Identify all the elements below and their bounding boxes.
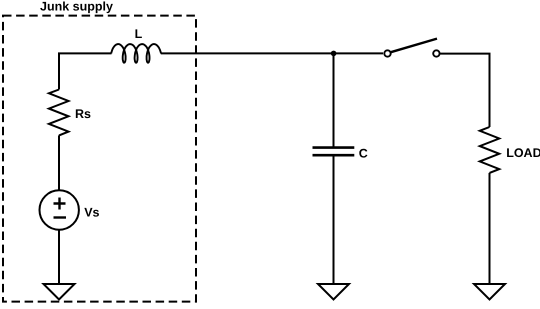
svg-text:Vs: Vs	[84, 205, 99, 219]
resistor LOAD	[480, 127, 500, 173]
junk supply enclosure	[3, 16, 196, 302]
wire: Rs to Vs	[58, 135, 60, 190]
switch right contact	[433, 50, 439, 56]
wire: capacitor bottom plate to ground	[333, 155, 335, 284]
resistor Rs	[49, 90, 69, 136]
node: junction of wire and capacitor	[331, 51, 337, 57]
wire: inductor to junction	[161, 52, 334, 54]
capacitor C top plate	[313, 146, 355, 149]
svg-text:Junk supply: Junk supply	[40, 0, 113, 14]
wire: top-left corner to inductor	[59, 53, 112, 89]
Vs plus sign	[54, 198, 66, 210]
ground (load branch)	[474, 284, 505, 300]
inductor L	[111, 44, 161, 63]
wire: Vs to ground	[58, 230, 60, 284]
ground (capacitor branch)	[318, 284, 349, 300]
voltage source Vs circle	[40, 190, 79, 229]
switch left contact	[384, 50, 390, 56]
wire: junction down to capacitor top plate	[333, 53, 335, 147]
ground (source branch)	[44, 284, 75, 300]
wire: LOAD to ground	[489, 173, 491, 284]
switch blade	[391, 39, 437, 53]
wire: switch right contact to corner and down to LOAD	[440, 54, 489, 127]
svg-text:L: L	[135, 27, 143, 41]
wire: junction to switch left contact	[334, 52, 384, 54]
Vs minus sign	[54, 216, 67, 218]
svg-text:C: C	[359, 146, 368, 160]
svg-text:LOAD: LOAD	[506, 146, 540, 160]
svg-text:Rs: Rs	[75, 107, 91, 121]
capacitor C bottom plate	[313, 154, 355, 157]
